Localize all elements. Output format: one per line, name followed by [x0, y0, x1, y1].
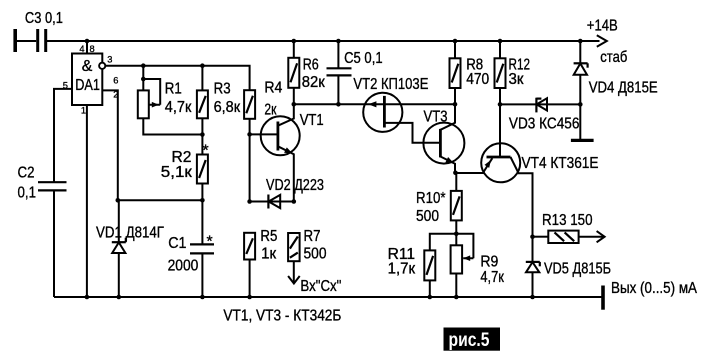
- node tie-R2 junction: [200, 132, 205, 137]
- svg-text:R1: R1: [165, 80, 182, 97]
- wire pin 3 to R4: [105, 66, 249, 90]
- svg-text:3к: 3к: [509, 71, 524, 88]
- svg-text:C5 0,1: C5 0,1: [344, 50, 383, 67]
- transistor Q1 VT1 КТ342Б: [261, 116, 300, 155]
- diode VD2 Д223: [250, 201, 294, 203]
- node rail C1: [200, 295, 205, 300]
- svg-text:VD5 Д815Б: VD5 Д815Б: [544, 260, 611, 277]
- svg-text:VT3: VT3: [424, 108, 448, 125]
- node junction VD1 top: [116, 198, 121, 203]
- svg-text:VT2 КП103Е: VT2 КП103Е: [353, 76, 428, 93]
- svg-text:R13 150: R13 150: [542, 212, 593, 229]
- svg-text:*: *: [207, 234, 213, 251]
- resistor R8 470: [454, 41, 456, 58]
- node VD2 right: [292, 199, 297, 204]
- svg-text:1: 1: [81, 106, 86, 116]
- capacitor C3: [13, 29, 17, 52]
- zener diode VD5 Д815Б: [532, 237, 534, 262]
- arrow +14V output: [597, 35, 607, 47]
- node R12 bottom-VT4 base: [498, 102, 503, 107]
- wire R7 to Вх arrow: [293, 261, 295, 282]
- wire R2 to node: [201, 184, 203, 201]
- svg-text:2000: 2000: [168, 257, 199, 274]
- svg-text:8: 8: [90, 44, 95, 54]
- resistor R13 150: [533, 236, 549, 238]
- wire pins 6,2 to VD1 node: [102, 90, 118, 200]
- resistor R5 1к: [244, 233, 255, 260]
- capacitor C2: [38, 181, 67, 183]
- svg-text:500: 500: [304, 246, 327, 263]
- svg-text:VD1 Д814Г: VD1 Д814Г: [96, 225, 164, 242]
- node VD4 top rail: [578, 39, 583, 44]
- svg-text:VD2 Д223: VD2 Д223: [266, 177, 324, 194]
- node rail R11: [428, 295, 433, 300]
- resistor R6 82к: [293, 41, 295, 58]
- transistor Q4 VT4 КТ361Е (PNP): [481, 143, 520, 182]
- node R12 top: [498, 39, 503, 44]
- capacitor C5 0,1: [337, 41, 339, 68]
- node VD2 left: [247, 199, 252, 204]
- node C5 top: [336, 39, 341, 44]
- svg-text:1,7к: 1,7к: [388, 261, 416, 278]
- resistor R1 4,7к (trimmer): [142, 66, 144, 91]
- node junction R2-C1: [200, 198, 205, 203]
- wire C2 to ground rail: [53, 190, 55, 297]
- wire VT1 collector / VT2 / R8 node: [294, 103, 455, 105]
- svg-text:R7: R7: [304, 228, 321, 245]
- svg-text:0,1: 0,1: [18, 185, 37, 202]
- svg-text:1к: 1к: [261, 246, 276, 263]
- zener diode VD3 КС456: [535, 98, 537, 113]
- node VT4 collector-R13: [530, 234, 535, 239]
- figure label рис.5: [444, 328, 501, 351]
- capacitor C1 2000: [201, 200, 203, 244]
- svg-text:VT1: VT1: [300, 112, 324, 129]
- svg-text:R4: R4: [264, 80, 282, 97]
- svg-text:5,1к: 5,1к: [161, 164, 192, 181]
- svg-text:4,7к: 4,7к: [480, 269, 504, 286]
- output terminal Вых: [601, 286, 605, 310]
- resistor R2 5,1к: [197, 155, 208, 184]
- transistor Q3 VT3 КТ342Б: [423, 123, 464, 164]
- svg-text:C2: C2: [18, 165, 35, 182]
- node VD4 bottom: [578, 102, 583, 107]
- svg-text:+14В: +14В: [587, 18, 618, 35]
- svg-text:2к: 2к: [264, 102, 276, 119]
- svg-text:R10*: R10*: [416, 190, 446, 207]
- svg-text:Вых (0...5) мА: Вых (0...5) мА: [611, 280, 697, 297]
- node rail R5: [247, 295, 252, 300]
- op-amp U1 DA1 box: [86, 41, 88, 54]
- ground symbol: [571, 139, 594, 142]
- wire pin 5 to C2: [54, 89, 72, 182]
- svg-text:6: 6: [113, 75, 118, 85]
- node R6 top: [292, 39, 297, 44]
- svg-text:500: 500: [416, 208, 439, 225]
- node R1 wiper tap: [141, 77, 146, 82]
- wire top +14V rail: [17, 40, 600, 42]
- node R8 top: [453, 39, 458, 44]
- node DA1 top rail junction: [85, 39, 90, 44]
- node C5 bottom: [336, 102, 341, 107]
- svg-text:VD4 Д815Е: VD4 Д815Е: [589, 79, 658, 96]
- node R4-VT1 base: [247, 132, 252, 137]
- resistor R3 6,8к: [201, 66, 203, 91]
- svg-text:82к: 82к: [302, 74, 325, 91]
- resistor R7 500: [288, 233, 300, 261]
- resistor R11 1,7к: [430, 234, 457, 251]
- pin 3 bubble: [99, 63, 105, 69]
- svg-text:R9: R9: [480, 253, 498, 270]
- svg-text:C1: C1: [168, 235, 186, 252]
- node R10 bottom: [454, 232, 459, 237]
- node rail R9: [454, 295, 459, 300]
- svg-text:Вх"Сх": Вх"Сх": [300, 278, 341, 295]
- node R1 top: [141, 63, 146, 68]
- svg-text:4,7к: 4,7к: [165, 99, 192, 116]
- svg-text:3: 3: [107, 55, 112, 65]
- svg-text:VD3 КС456: VD3 КС456: [509, 115, 580, 132]
- wire R12 node to VD4 node: [500, 103, 580, 105]
- svg-text:C3 0,1: C3 0,1: [25, 10, 63, 27]
- svg-text:4: 4: [79, 44, 84, 54]
- resistor R9 4,7к (trimmer): [455, 234, 457, 246]
- transistor Q2 VT2 КП103Е (p-JFET): [363, 93, 402, 132]
- node R8-VT3 collector: [453, 102, 458, 107]
- svg-text:*: *: [203, 143, 209, 160]
- wire node pins6,2 / VD1 / R2 bottom: [118, 199, 203, 201]
- node rail VD5: [530, 295, 535, 300]
- zener diode VD1 Д814Г: [118, 200, 120, 242]
- svg-text:рис.5: рис.5: [449, 330, 490, 351]
- wire pin 1 to ground rail: [86, 105, 88, 297]
- wire ground rail: [54, 296, 603, 298]
- wire R5 to ground rail: [249, 260, 251, 298]
- wire R4 to VD2 node: [249, 119, 251, 202]
- resistor R4 2к: [244, 90, 255, 119]
- node VT3 emitter-R10: [453, 171, 458, 176]
- resistor R12 3к: [499, 41, 501, 58]
- svg-text:R5: R5: [260, 228, 277, 245]
- svg-text:VT4 КТ361Е: VT4 КТ361Е: [522, 155, 599, 172]
- svg-text:стаб: стаб: [600, 49, 627, 66]
- wire R1-R3 bottom tie: [143, 118, 202, 154]
- node rail pin1: [85, 295, 90, 300]
- svg-text:VT1, VT3 - КТ342Б: VT1, VT3 - КТ342Б: [223, 308, 341, 325]
- svg-text:6,8к: 6,8к: [214, 99, 241, 116]
- resistor R10* 500: [455, 173, 457, 191]
- svg-text:R3: R3: [214, 80, 231, 97]
- node R3 top: [200, 63, 205, 68]
- zener diode VD4 Д815Е: [579, 41, 581, 63]
- svg-text:R6: R6: [303, 57, 319, 74]
- node VT1 collector-R6: [292, 102, 297, 107]
- svg-text:DA1: DA1: [75, 77, 100, 94]
- node rail VD1: [117, 295, 122, 300]
- svg-text:470: 470: [466, 71, 489, 88]
- svg-text:&: &: [82, 58, 93, 75]
